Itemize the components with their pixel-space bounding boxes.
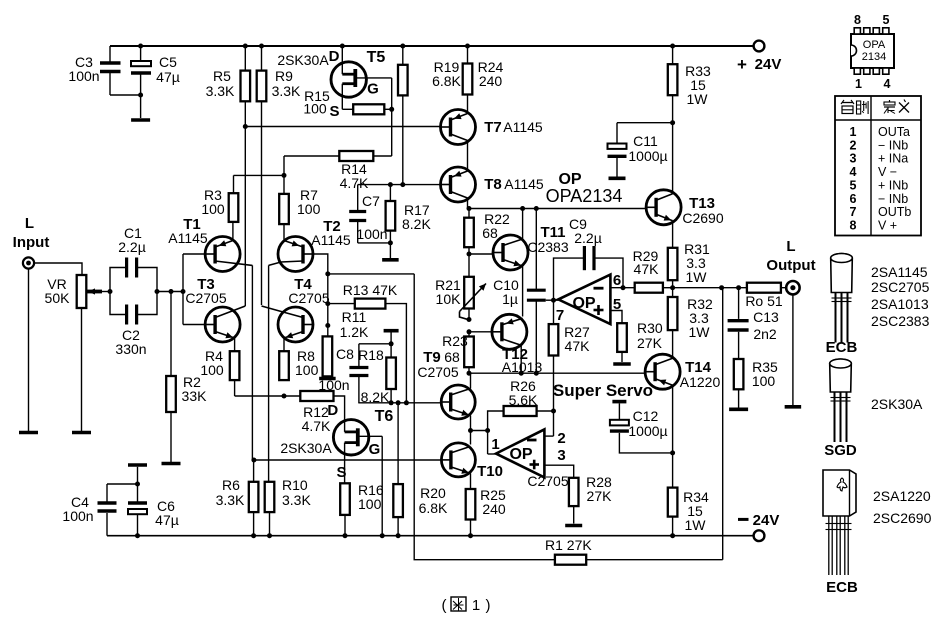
svg-text:2: 2 (557, 430, 565, 447)
label 2SK30A T6 (280, 440, 332, 456)
svg-text:2SK30A: 2SK30A (871, 396, 923, 412)
label L Output (766, 238, 815, 274)
svg-text:5.6K: 5.6K (509, 392, 538, 408)
svg-text:1: 1 (472, 597, 480, 614)
label C4 100n (62, 494, 93, 524)
label D T5 (329, 48, 340, 65)
node R6 bottom (251, 533, 256, 538)
svg-text:5: 5 (850, 178, 857, 192)
svg-text:2SC2705: 2SC2705 (871, 279, 930, 295)
svg-text:1W: 1W (685, 517, 707, 533)
resistor R18 8.2K (386, 344, 396, 403)
resistor R2 33K (166, 376, 176, 412)
wire R3 R7 top node (234, 156, 285, 194)
label pin5 (613, 296, 621, 313)
node R17 bottom (388, 240, 393, 245)
node T8 collector (467, 206, 472, 211)
label L Input (13, 215, 50, 251)
capacitor C6 47u (128, 503, 147, 514)
svg-text:Input: Input (13, 234, 50, 251)
wire T13 collector (672, 123, 674, 192)
svg-text:L: L (786, 238, 795, 255)
label 2SA1013 (871, 296, 929, 312)
label R9 3.3K (272, 68, 301, 99)
svg-text:2.2µ: 2.2µ (574, 230, 602, 246)
label SGD (824, 442, 857, 459)
svg-text:A1145: A1145 (503, 119, 543, 135)
terminal L input (23, 257, 34, 268)
transistor T14 A1220 (645, 354, 680, 453)
label R18 (358, 347, 384, 363)
svg-text:+: + (737, 55, 747, 74)
capacitor C9 2.2u (554, 246, 624, 300)
svg-text:100n: 100n (318, 377, 349, 393)
transistor T9 C2705 (441, 373, 475, 444)
label R3 100 (201, 187, 225, 217)
svg-text:(: ( (442, 597, 447, 614)
svg-text:10K: 10K (436, 291, 462, 307)
svg-text:2n2: 2n2 (753, 326, 777, 342)
label R17 8.2K (402, 202, 431, 232)
node C11 tap (670, 120, 675, 125)
node R23 bottom (467, 371, 472, 376)
label OP (558, 171, 581, 188)
svg-text:T10: T10 (477, 463, 503, 480)
transistor T13 C2690 (646, 190, 681, 248)
svg-text:8.2K: 8.2K (361, 389, 390, 405)
svg-text:C2383: C2383 (527, 239, 568, 255)
svg-text:1: 1 (850, 125, 857, 139)
svg-text:C12: C12 (633, 408, 659, 424)
resistor R12 4.7K (300, 391, 333, 401)
svg-text:100: 100 (303, 101, 327, 117)
resistor R32 3.3 1W (668, 288, 678, 357)
node R13 bottom (404, 400, 409, 405)
label C10 1u (493, 277, 519, 307)
svg-text:C11: C11 (633, 133, 658, 149)
svg-text:100: 100 (358, 496, 382, 512)
svg-text:1µ: 1µ (502, 291, 518, 307)
label IC pin 8 (854, 13, 861, 27)
label T2 A1145 (311, 218, 351, 248)
label R23 (442, 333, 468, 349)
svg-text:100n: 100n (356, 226, 387, 242)
wire VR ground drop (81, 308, 83, 431)
node C8 R18 bottom (389, 400, 394, 405)
wire T10 base (254, 459, 442, 461)
capacitor C12 1000u (610, 420, 673, 453)
label C3 100n (68, 54, 99, 84)
wire driver node (469, 372, 645, 374)
svg-text:R10: R10 (282, 477, 308, 493)
node C5 bottom (138, 93, 143, 98)
svg-text:A1145: A1145 (311, 232, 351, 248)
node R7 top (282, 173, 287, 178)
node R24 rail (465, 44, 470, 49)
label R11 1.2K (340, 309, 369, 340)
label T5 (367, 49, 386, 66)
label Ro 51 (745, 293, 783, 309)
svg-text:R13 47K: R13 47K (343, 282, 398, 298)
label R1 27K (545, 537, 592, 553)
svg-text:47K: 47K (565, 338, 591, 354)
wire C1/C2 loop (110, 268, 183, 315)
svg-text:Super Servo: Super Servo (553, 381, 653, 400)
node C10 top (534, 206, 539, 211)
ground input (19, 431, 38, 435)
svg-text:C5: C5 (159, 54, 177, 70)
label C12 1000u (628, 408, 667, 439)
label R10 3.3K (282, 477, 311, 508)
label VR 50K (45, 276, 71, 306)
svg-text:4: 4 (850, 165, 857, 179)
svg-text:330n: 330n (115, 341, 146, 357)
resistor R16 100 (340, 483, 350, 535)
label R16 100 (358, 482, 384, 512)
wire C3 C5 block (110, 46, 141, 118)
svg-text:2SA1220: 2SA1220 (873, 488, 931, 504)
label T4 C2705 (288, 276, 329, 306)
transistor T11 C2383 (493, 209, 528, 317)
transistor T8 A1145 (441, 167, 476, 209)
svg-text:2SC2383: 2SC2383 (871, 313, 930, 329)
label G T5 (367, 81, 379, 98)
capacitor C11 1000u (608, 144, 627, 177)
capacitor C13 2n2 (728, 288, 749, 359)
label OPA2134 (546, 186, 623, 206)
svg-text:G: G (369, 441, 381, 458)
svg-text:6.8K: 6.8K (419, 500, 448, 516)
label R28 27K (586, 474, 612, 504)
transistor T6 2SK30A (333, 396, 382, 483)
label IC pin 4 (884, 77, 891, 91)
label R27 47K (564, 324, 590, 354)
node R20 bottom (396, 533, 401, 538)
svg-text:24V: 24V (755, 56, 782, 73)
node R19 bottom T8 base (400, 182, 405, 187)
ground above R18 (384, 331, 399, 344)
svg-text:S: S (329, 103, 339, 120)
label R35 100 (752, 359, 778, 389)
svg-text:OUTa: OUTa (878, 125, 910, 139)
label T12 A1013 (502, 346, 543, 375)
svg-text:T7: T7 (484, 119, 502, 136)
wire pin6 (610, 287, 634, 289)
svg-text:7: 7 (850, 205, 857, 219)
ground R2 (162, 462, 181, 466)
label G T6 (369, 441, 381, 458)
label 2SK30A pkg (871, 396, 923, 412)
wire R5 column (244, 46, 246, 306)
label C2 330n (115, 327, 146, 357)
ground C11 (609, 177, 626, 181)
label 2SA1220 (873, 488, 931, 504)
svg-text:3.3K: 3.3K (216, 492, 245, 508)
label T13 C2690 (682, 195, 723, 226)
svg-text:5: 5 (883, 13, 890, 27)
svg-text:V +: V + (878, 218, 897, 232)
resistor R35 100 (734, 359, 744, 408)
capacitor C3 100n (100, 63, 121, 72)
op-amp U1a (558, 275, 610, 325)
label Super Servo (553, 381, 653, 400)
svg-text:1.2K: 1.2K (340, 324, 369, 340)
svg-text:C8: C8 (336, 346, 354, 362)
svg-text:Ro 51: Ro 51 (745, 293, 783, 309)
resistor R25 240 (466, 489, 476, 536)
node C6 top (135, 482, 140, 487)
svg-text:100: 100 (200, 362, 224, 378)
ground R35 (729, 407, 748, 411)
node T11 collector (520, 206, 525, 211)
label pin2 (557, 430, 565, 447)
node servo inject (468, 428, 473, 433)
node R2 tap (169, 289, 174, 294)
node R13 left (325, 301, 330, 306)
svg-text:8.2K: 8.2K (402, 216, 431, 232)
node R21 wiper (467, 317, 472, 322)
label 2SC2690 (873, 510, 932, 526)
node T10 base wire (251, 458, 256, 463)
label R14 4.7K (340, 161, 369, 191)
node op-a out (551, 298, 556, 303)
svg-text:4.7K: 4.7K (302, 418, 331, 434)
label C1 2.2u (118, 225, 146, 255)
wire T6 gate drop (381, 436, 383, 535)
capacitor C10 1u (527, 209, 546, 374)
label C5 47u (156, 54, 180, 85)
node C6 bottom (135, 533, 140, 538)
package TO-126 ECB (823, 470, 856, 575)
label C7 100n (356, 193, 387, 242)
label 2SA1145 (871, 264, 928, 280)
resistor R1 27K (555, 555, 586, 565)
wire servo inject (471, 430, 488, 432)
label -24V (738, 512, 779, 529)
label T9 68 (423, 349, 460, 366)
wire pin3 R28 (544, 465, 573, 478)
ground R17 (382, 258, 399, 262)
svg-text:+ INa: + INa (878, 152, 908, 166)
svg-text:47µ: 47µ (156, 69, 180, 85)
label 8.2K R18 (361, 389, 390, 405)
svg-text:68: 68 (482, 225, 498, 241)
svg-text:2SC2690: 2SC2690 (873, 510, 932, 526)
node R8 bottom (282, 394, 287, 399)
transistor T10 C2705 (441, 443, 475, 489)
svg-text:C2705: C2705 (185, 290, 226, 306)
label 100n C8 (318, 377, 349, 393)
node T5 drain rail (340, 44, 345, 49)
svg-text:3: 3 (850, 152, 857, 166)
label R4 100 (200, 348, 224, 378)
label R13 47K (343, 282, 398, 298)
capacitor C4 100n (98, 503, 117, 511)
svg-text:7: 7 (556, 307, 564, 324)
table pinout (835, 96, 921, 236)
label R29 47K (633, 248, 659, 277)
node R19 rail (400, 44, 405, 49)
resistor R21 10K (460, 254, 487, 320)
wire gate to R14 (391, 109, 393, 156)
wire T2 base (313, 254, 328, 336)
label T1 A1145 (168, 216, 208, 246)
svg-text:1W: 1W (686, 269, 708, 285)
wire C11 link (617, 123, 673, 144)
svg-text:8: 8 (854, 13, 861, 27)
svg-text:T6: T6 (375, 408, 394, 425)
label 2SK30A T5 (277, 52, 329, 68)
label R26 5.6K (509, 378, 538, 408)
svg-text:C2705: C2705 (527, 473, 568, 489)
label T11 C2383 (527, 224, 568, 255)
capacitor C2 330n (127, 305, 137, 325)
svg-text:24V: 24V (753, 512, 780, 529)
capacitor C8 100n (349, 368, 368, 403)
label T10 (477, 463, 503, 480)
node base split (181, 289, 186, 294)
node T6 gate rail (380, 533, 385, 538)
IC U1 OPA2134 DIP8 (851, 28, 894, 74)
resistor R4 100 (230, 351, 240, 380)
node R18 top (389, 341, 394, 346)
label T6 (375, 408, 394, 425)
resistor R29 47K (635, 283, 673, 293)
svg-text:3.3K: 3.3K (272, 83, 301, 99)
label R30 27K (637, 320, 663, 351)
svg-text:L: L (25, 215, 34, 232)
label R8 100 (295, 348, 319, 378)
capacitor C7 100n (349, 212, 390, 243)
wire pin2 (544, 435, 553, 437)
node C10 bottom (534, 371, 539, 376)
label R7 100 (297, 187, 321, 217)
resistor R34 15 1W (668, 453, 678, 536)
resistor Ro 51 (747, 283, 781, 293)
svg-text:240: 240 (482, 501, 506, 517)
wire -24V rail (107, 535, 759, 537)
svg-text:100: 100 (295, 362, 319, 378)
svg-text:33K: 33K (182, 388, 208, 404)
terminal L output (786, 281, 799, 294)
label +24V (737, 55, 781, 74)
label pin7 (556, 307, 564, 324)
capacitor C1 2.2u (127, 258, 137, 278)
node R10 bottom (267, 533, 272, 538)
wire R2 ground (170, 412, 172, 462)
label R21 10K (435, 277, 461, 307)
node C loop out (155, 289, 160, 294)
svg-text:2SK30A: 2SK30A (280, 440, 332, 456)
node R20 top (396, 400, 401, 405)
label C9 2.2u (569, 216, 602, 246)
resistor R15 100 (342, 104, 391, 114)
ground C4 C6 (128, 463, 147, 467)
node R26 right (551, 409, 556, 414)
svg-text:6.8K: 6.8K (432, 73, 461, 89)
resistor R33 15 1W (668, 46, 678, 123)
svg-text:R1 27K: R1 27K (545, 537, 592, 553)
package TO-92 ECB (831, 254, 853, 343)
label 2SC2705 (871, 279, 930, 295)
label C11 1000u (628, 133, 667, 164)
resistor R27 47K (549, 300, 559, 436)
svg-text:2.2µ: 2.2µ (118, 239, 146, 255)
node T5 gate R15 (389, 107, 394, 112)
wire base column T1 T3 (183, 254, 205, 325)
wire op-a out (546, 299, 559, 301)
resistor R11 1.2K (323, 336, 333, 376)
caption (Tu 1) (442, 597, 491, 614)
svg-text:6: 6 (613, 272, 621, 289)
svg-text:100: 100 (752, 373, 776, 389)
svg-text:100n: 100n (68, 68, 99, 84)
wire pin5 R30 (610, 311, 622, 324)
ground output terminal (785, 405, 802, 409)
svg-text:6: 6 (850, 192, 857, 206)
node T12 base (467, 329, 472, 334)
svg-text:100n: 100n (62, 508, 93, 524)
node NFB tap (719, 285, 724, 290)
label C13 2n2 (753, 309, 779, 342)
svg-text:1: 1 (491, 436, 499, 453)
node R9 rail (259, 44, 264, 49)
svg-text:D: D (327, 402, 338, 419)
label R24 240 (478, 59, 504, 89)
node servo out (485, 428, 490, 433)
svg-text:OUTb: OUTb (878, 205, 911, 219)
transistor T7 A1145 (441, 110, 476, 172)
svg-text:3.3K: 3.3K (282, 492, 311, 508)
wire C8 top (359, 344, 391, 366)
label T3 C2705 (185, 276, 226, 306)
ground R28 (565, 524, 582, 528)
wire T2 base to feedback (328, 273, 414, 275)
svg-text:− INb: − INb (878, 192, 908, 206)
transistor T4 C2705 (262, 306, 314, 351)
svg-text:R23: R23 (442, 333, 468, 349)
svg-text:− INb: − INb (878, 138, 908, 152)
wire R2 drop (170, 292, 172, 377)
svg-text:T5: T5 (367, 49, 386, 66)
label R15 100 (303, 88, 330, 117)
node C12 join (670, 450, 675, 455)
wire feedback bottom line (414, 274, 723, 560)
label ECB top (826, 339, 858, 356)
ground above C12 (612, 402, 626, 420)
wire input ground drop (28, 269, 30, 431)
svg-text:2134: 2134 (862, 51, 886, 63)
wire T7 base (245, 126, 440, 128)
wire T9 base (358, 402, 441, 404)
resistor R28 27K (569, 478, 579, 524)
wire output terminal ground (792, 294, 794, 405)
svg-text:R11: R11 (342, 309, 367, 325)
resistor R8 100 (279, 351, 289, 380)
svg-text:C13: C13 (753, 309, 779, 325)
svg-text:240: 240 (479, 73, 503, 89)
resistor R13 47K (328, 299, 407, 403)
svg-text:A1145: A1145 (504, 176, 544, 192)
resistor R6 3.3K (249, 460, 259, 536)
svg-text:R20: R20 (420, 485, 446, 501)
package TO-92 SGD (830, 359, 852, 442)
label 2SC2383 (871, 313, 930, 329)
label C2705 T9 (417, 364, 458, 380)
svg-text:R18: R18 (358, 347, 384, 363)
node zobel tap (736, 285, 741, 290)
label R5 3.3K (206, 68, 235, 99)
